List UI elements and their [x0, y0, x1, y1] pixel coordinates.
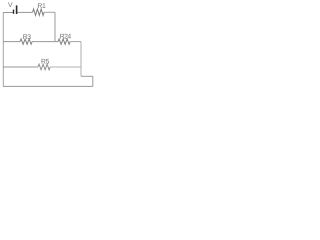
wire R1 to top-right corner, down to row2 — [44, 11, 55, 13]
wire jog right — [81, 75, 93, 77]
wire R3 to R24 — [32, 41, 58, 43]
resistor R3 — [20, 39, 32, 44]
resistor R24 — [58, 39, 70, 44]
wire right rail — [92, 76, 94, 86]
wire row2 left — [3, 41, 20, 43]
resistor R1 — [33, 9, 44, 15]
svg-text:R24: R24 — [60, 33, 72, 40]
wire bottom — [3, 85, 93, 87]
wire R5 to vertical B — [50, 66, 81, 68]
wire row3 left — [3, 66, 38, 68]
svg-text:R1: R1 — [37, 3, 46, 10]
wire battery to R1 — [17, 11, 32, 13]
wire left rail — [2, 12, 4, 86]
wire top row to battery — [3, 12, 13, 14]
battery V — [14, 5, 17, 14]
wire vertical B — [80, 42, 82, 77]
resistor R5 — [38, 64, 50, 70]
svg-text:R5: R5 — [41, 58, 50, 65]
svg-text:V: V — [8, 2, 13, 9]
wire R24 to right corner — [70, 41, 81, 43]
svg-text:R3: R3 — [23, 34, 32, 41]
